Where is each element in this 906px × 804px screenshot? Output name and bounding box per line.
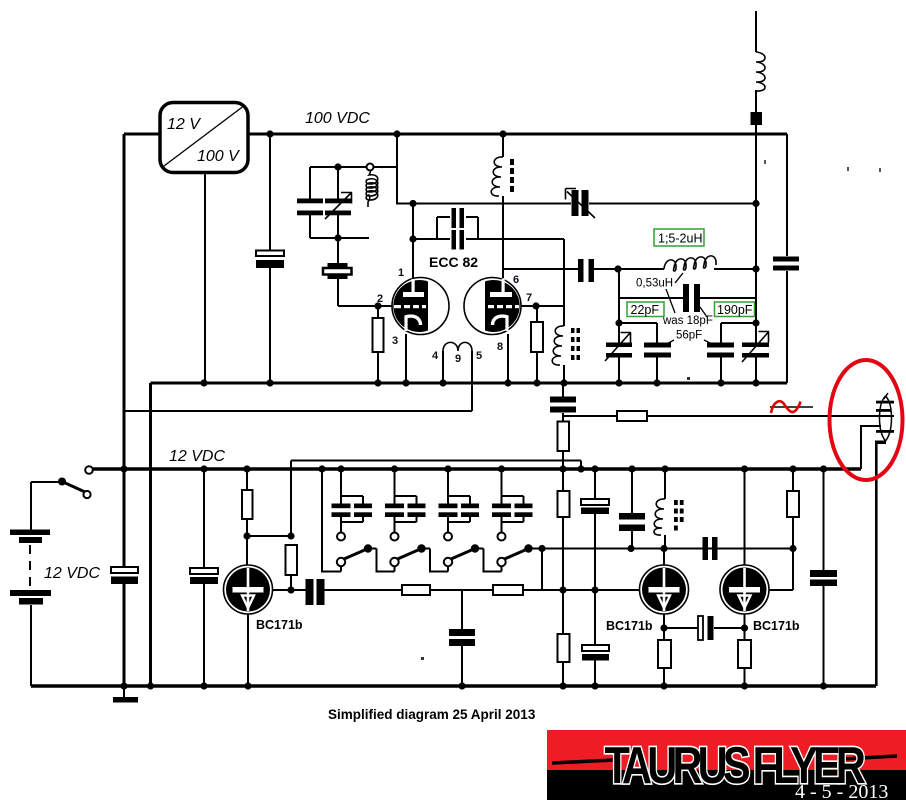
heater element pins 4-5-9 xyxy=(443,342,472,351)
node osc feedback junctions xyxy=(614,265,759,326)
switch S1 xyxy=(31,466,93,530)
wire timing mid xyxy=(430,589,493,591)
connector antenna feed block xyxy=(751,112,763,125)
svg-text:ECC 82: ECC 82 xyxy=(429,254,478,270)
svg-text:3: 3 xyxy=(392,335,398,347)
capacitor C10 was18pF 56pF xyxy=(683,284,700,312)
capacitor C15 output coupling xyxy=(550,383,576,421)
wire osc lower line xyxy=(619,322,756,324)
wire Q3 emitter xyxy=(744,614,746,686)
svg-text:5: 5 xyxy=(476,350,482,362)
svg-text:12 VDC: 12 VDC xyxy=(169,448,225,465)
svg-text:Simplified diagram 25 April 20: Simplified diagram 25 April 2013 xyxy=(328,707,536,722)
capacitor C5 grid feed disc xyxy=(323,238,392,306)
callout tick coil xyxy=(675,273,683,283)
resistor R3 output series xyxy=(617,411,647,421)
ground xyxy=(113,686,138,703)
resistor R5 base bias xyxy=(286,545,298,575)
resistor R1 grid leak xyxy=(373,306,384,383)
wire rail step to connector xyxy=(861,426,881,469)
wire tank top xyxy=(310,134,397,204)
stray mark 5 xyxy=(421,657,424,660)
svg-text:56pF: 56pF xyxy=(676,330,702,342)
converter U1 12V/100V box xyxy=(160,103,248,173)
resistor R7 timing xyxy=(402,585,430,595)
resistor R11 Q2 emitter xyxy=(658,640,671,668)
wire left HT-ground drop xyxy=(149,383,152,686)
wire 12VDC rail xyxy=(92,467,861,471)
svg-text:190pF: 190pF xyxy=(717,303,753,317)
node plate line junctions xyxy=(409,200,759,243)
waveform line xyxy=(770,406,813,408)
wire Q2 emitter xyxy=(663,614,665,686)
wire left 12V vertical xyxy=(123,134,126,566)
inductor L6 collector choke xyxy=(654,469,684,549)
wire bottom ground rail xyxy=(31,684,876,688)
node 12VDC rail junctions xyxy=(120,465,827,472)
wire output line to connector xyxy=(563,415,894,417)
capacitor C23 output shunt xyxy=(810,469,837,686)
capacitor C14 variable trimmer right xyxy=(742,332,769,363)
capacitor C-12V electrolytic on left vertical xyxy=(111,567,138,584)
svg-text:12 V: 12 V xyxy=(167,116,201,133)
label 190pF green box xyxy=(715,302,755,317)
svg-text:7: 7 xyxy=(526,292,532,304)
inductor L4 0,53uH xyxy=(618,256,756,271)
stray mark 1 xyxy=(764,160,766,164)
capacitor C4 tank variable xyxy=(325,167,352,238)
resistor R4 to 12V rail xyxy=(558,421,570,469)
callout lines was18pF xyxy=(666,289,707,317)
node bottom rail junctions xyxy=(120,682,827,689)
svg-text:1: 1 xyxy=(398,267,404,279)
tube U2 ECC82 triode B xyxy=(464,278,521,335)
capacitor C22 emitter coupling electrolytic xyxy=(698,616,714,640)
wire right HT loop vertical xyxy=(786,134,788,383)
resistor R13 Q3 base bias xyxy=(787,469,799,549)
wire 12V input to box xyxy=(124,133,160,136)
wire Q3 base xyxy=(769,549,793,591)
tube U2 ECC82 triode A xyxy=(392,278,449,335)
svg-text:4 - 5 - 2013: 4 - 5 - 2013 xyxy=(795,781,888,803)
node tank top terminal circle xyxy=(367,164,374,171)
capacitor C20 shunt xyxy=(619,469,645,549)
resistor R9 xyxy=(558,491,570,517)
battery B1 12VDC xyxy=(10,530,51,687)
node 100VDC rail junctions xyxy=(266,130,506,137)
capacitor C21 cross coupling xyxy=(703,537,718,560)
svg-text:BC171b: BC171b xyxy=(606,619,653,633)
inductor L2 RF choke plate2 xyxy=(491,134,514,278)
capacitor C2 12V electrolytic xyxy=(190,469,218,686)
wire osc mid line xyxy=(619,297,756,299)
node tank junctions xyxy=(334,163,341,241)
stray mark 3 xyxy=(879,168,881,172)
capacitor C11 variable trimmer left xyxy=(605,269,632,383)
node Q1 collector junctions xyxy=(243,532,294,593)
capacitor CT2 trimmer pair xyxy=(385,469,426,541)
svg-text:6: 6 xyxy=(513,274,519,286)
node emitter coupling junctions xyxy=(660,624,748,631)
svg-text:1;5-2uH: 1;5-2uH xyxy=(658,232,702,246)
node pin2 junction xyxy=(374,302,381,309)
stray mark 4 xyxy=(687,377,690,380)
label 1;5-2uH green box xyxy=(654,229,704,246)
label 22pF green box xyxy=(627,302,664,317)
wire emitter coupling xyxy=(664,627,745,629)
capacitor C16 Q1 base xyxy=(306,579,403,605)
svg-text:9: 9 xyxy=(455,353,461,365)
svg-text:BC171b: BC171b xyxy=(753,619,800,633)
wire cathode1 xyxy=(405,334,407,383)
svg-text:12 VDC: 12 VDC xyxy=(44,565,100,582)
capacitor C7 C8 parallel coupling pair xyxy=(413,208,564,250)
capacitor C3 tank fixed xyxy=(297,167,323,238)
resistor R8 timing xyxy=(493,585,523,595)
wire pin7 to grid2 xyxy=(521,305,564,307)
wire left vertical below cap xyxy=(123,584,126,686)
wire aux feed line xyxy=(291,461,581,470)
switch SW3 xyxy=(444,544,502,571)
svg-text:8: 8 xyxy=(497,341,503,353)
capacitor C13 190pF fixed xyxy=(707,323,734,383)
wire grid2 vertical xyxy=(563,239,565,383)
wire plate1 line xyxy=(396,203,756,205)
wire heater line xyxy=(124,351,472,411)
wire antenna vertical xyxy=(755,11,757,383)
transistor Q2 BC171b xyxy=(640,549,689,615)
wire 100VDC rail xyxy=(248,133,787,136)
wire mid column resistors xyxy=(562,469,564,686)
capacitor C12 22pF fixed xyxy=(644,323,671,383)
inductor L5 antenna coil xyxy=(756,52,765,91)
wire base bias drop xyxy=(290,461,292,591)
resistor R10 xyxy=(558,634,570,662)
highlight red ellipse xyxy=(830,360,903,480)
capacitor C18 electrolytic upper xyxy=(581,469,609,686)
capacitor C-HT right loop xyxy=(773,257,799,271)
capacitor C1 100V decoupling xyxy=(256,134,284,383)
svg-text:100 VDC: 100 VDC xyxy=(305,110,370,127)
wire heater left leg xyxy=(442,351,444,383)
wire pin1 vertical xyxy=(412,204,414,279)
wire base line Q2 xyxy=(542,589,640,591)
switch SW2 xyxy=(390,544,448,571)
stray mark 2 xyxy=(847,167,849,171)
switch SW1 xyxy=(337,544,395,571)
capacitor CT4 trimmer pair xyxy=(492,469,533,541)
wire Q1 emitter xyxy=(247,614,249,686)
switch SW4 xyxy=(497,544,532,566)
capacitor C6 variable padder on plate line xyxy=(566,189,596,219)
wire oscillator feedback line xyxy=(503,268,618,270)
capacitor C9 coupling to tank xyxy=(578,259,594,282)
capacitor C17 timing shunt xyxy=(449,590,475,686)
svg-text:was 18pF: was 18pF xyxy=(662,315,713,327)
wire connector ground leg xyxy=(875,441,886,687)
resistor R12 Q3 emitter xyxy=(738,640,751,668)
svg-text:0,53uH: 0,53uH xyxy=(636,278,673,290)
wire converter ground return xyxy=(204,172,206,383)
node switch bus junctions xyxy=(538,545,796,552)
logo Taurus Flyer xyxy=(547,730,906,803)
transistor Q3 BC171b xyxy=(720,469,769,614)
node HT ground rail junctions xyxy=(200,379,759,386)
wire HT ground rail xyxy=(151,382,788,385)
wire switch-bank feed xyxy=(322,469,341,572)
inductor L1 tank coil xyxy=(366,171,378,208)
node base line junctions xyxy=(559,586,598,593)
wire switch bus xyxy=(529,548,794,550)
svg-text:4: 4 xyxy=(432,350,439,362)
wire cathode2 xyxy=(507,334,509,383)
waveform red sine xyxy=(771,401,801,413)
svg-text:100 V: 100 V xyxy=(197,148,240,165)
transistor Q1 BC171b xyxy=(224,565,273,614)
svg-text:22pF: 22pF xyxy=(631,303,660,317)
wire timing to switch bus xyxy=(523,549,542,591)
capacitor CT1 trimmer pair xyxy=(332,469,373,541)
svg-text:BC171b: BC171b xyxy=(256,618,303,632)
wire tank bottom xyxy=(310,237,369,239)
resistor R2 cathode2 xyxy=(531,306,543,383)
inductor L3 grid choke xyxy=(552,326,580,365)
capacitor CT3 trimmer pair xyxy=(439,469,480,541)
node grid junction pin7 xyxy=(532,302,539,309)
resistor R6 Q1 collector xyxy=(242,469,291,565)
wire Q1 base xyxy=(273,589,307,591)
connector J1 antenna jack coil xyxy=(876,393,894,441)
capacitor C19 electrolytic lower xyxy=(582,645,609,661)
callout lines 56pF xyxy=(661,340,718,347)
